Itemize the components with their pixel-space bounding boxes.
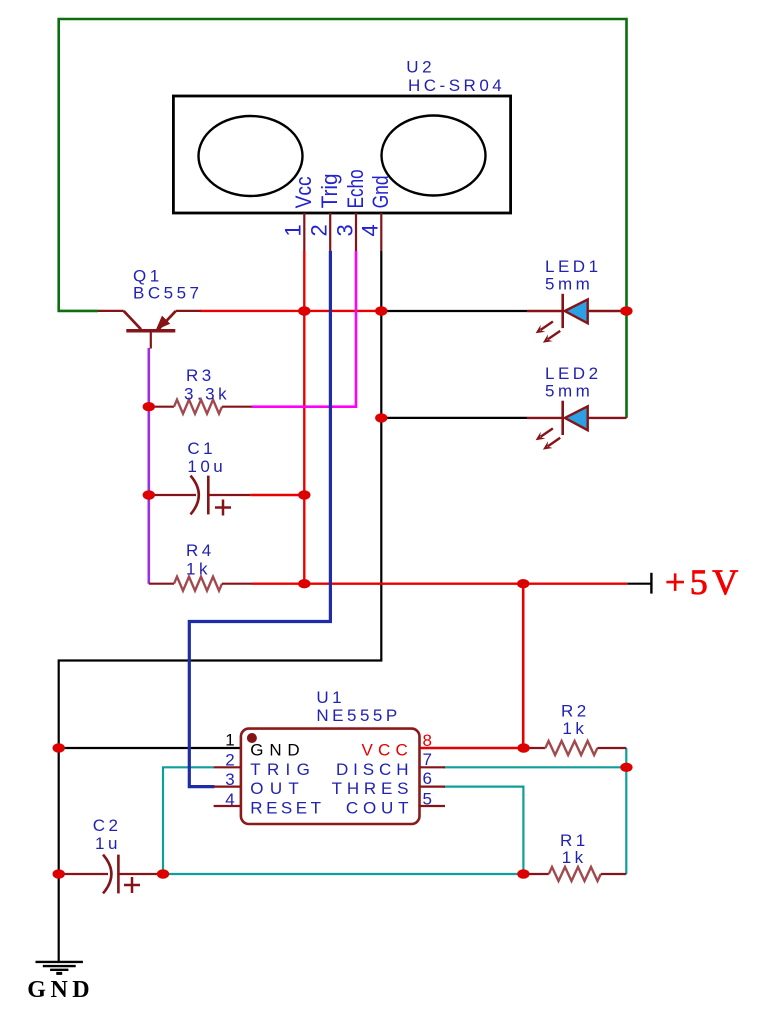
svg-text:GND: GND <box>27 977 94 1003</box>
svg-text:Vcc: Vcc <box>291 176 316 208</box>
svg-text:Trig: Trig <box>317 173 342 208</box>
svg-text:1u: 1u <box>95 834 121 853</box>
svg-text:COUT: COUT <box>346 799 413 818</box>
svg-text:LED2: LED2 <box>545 364 602 383</box>
svg-text:DISCH: DISCH <box>336 760 413 779</box>
svg-text:U2: U2 <box>406 58 435 77</box>
svg-text:RESET: RESET <box>250 799 324 818</box>
svg-text:+5V: +5V <box>665 562 743 602</box>
svg-text:6: 6 <box>423 769 432 788</box>
svg-text:R3: R3 <box>186 366 215 385</box>
svg-text:OUT: OUT <box>250 779 305 798</box>
svg-text:BC557: BC557 <box>133 284 202 303</box>
svg-text:C1: C1 <box>187 439 216 458</box>
svg-text:1: 1 <box>225 731 234 750</box>
svg-text:7: 7 <box>423 750 432 769</box>
svg-text:8: 8 <box>423 731 432 750</box>
svg-text:C2: C2 <box>93 816 122 835</box>
svg-text:VCC: VCC <box>362 741 414 760</box>
svg-text:4: 4 <box>225 790 234 809</box>
svg-text:10u: 10u <box>187 457 226 476</box>
svg-text:1k: 1k <box>562 719 587 738</box>
svg-text:R4: R4 <box>186 541 215 560</box>
svg-text:NE555P: NE555P <box>316 706 400 725</box>
svg-text:TRIG: TRIG <box>250 760 316 779</box>
svg-text:3.3k: 3.3k <box>184 385 230 404</box>
svg-text:1k: 1k <box>562 848 587 867</box>
svg-text:R1: R1 <box>560 831 589 850</box>
svg-text:4: 4 <box>358 224 383 236</box>
svg-text:1k: 1k <box>186 560 211 579</box>
svg-text:HC-SR04: HC-SR04 <box>408 76 505 95</box>
svg-text:3: 3 <box>225 770 234 789</box>
svg-text:5: 5 <box>423 790 432 809</box>
svg-text:LED1: LED1 <box>545 257 602 276</box>
svg-text:5mm: 5mm <box>545 382 593 401</box>
svg-text:Echo: Echo <box>343 169 368 208</box>
svg-text:2: 2 <box>307 224 332 236</box>
svg-text:5mm: 5mm <box>545 275 593 294</box>
svg-text:R2: R2 <box>561 702 590 721</box>
svg-text:3: 3 <box>333 224 358 236</box>
svg-text:Gnd: Gnd <box>368 175 393 208</box>
svg-text:2: 2 <box>225 750 234 769</box>
svg-text:U1: U1 <box>316 688 345 707</box>
svg-text:1: 1 <box>281 224 306 236</box>
svg-text:GND: GND <box>250 741 305 760</box>
svg-text:THRES: THRES <box>332 779 414 798</box>
